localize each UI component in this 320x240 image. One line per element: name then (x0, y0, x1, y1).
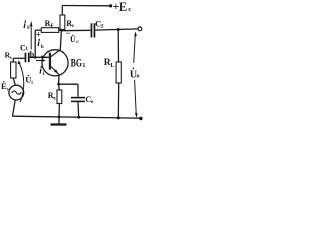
svg-text:+: + (36, 30, 41, 40)
svg-text:e: e (91, 99, 94, 105)
svg-text:o: o (137, 74, 140, 80)
svg-text:BG: BG (71, 57, 82, 69)
capacitor C1 (13, 53, 29, 63)
capacitor C2 (91, 23, 96, 37)
svg-text:i: i (31, 81, 33, 86)
label Ce (85, 94, 94, 105)
svg-text:b: b (41, 44, 44, 50)
resistor Rs (11, 58, 16, 85)
label Ui (25, 75, 33, 86)
node Ce rail junction (77, 116, 80, 119)
svg-text:L: L (110, 63, 114, 69)
node output terminal bottom (139, 117, 142, 120)
label Uo (130, 68, 140, 81)
svg-text:i: i (23, 21, 26, 31)
current arrow IF (30, 21, 33, 50)
ground (51, 117, 67, 125)
svg-text:c: c (76, 40, 79, 45)
node b junction dot (34, 56, 37, 59)
wire RF lead down to node b (34, 30, 36, 57)
label C1 (20, 43, 28, 52)
label Es (1, 81, 9, 92)
label BG1 (71, 57, 86, 69)
wire output from C2 to terminal (95, 29, 138, 30)
label Ii (39, 66, 45, 77)
node RL rail junction (117, 116, 120, 119)
polarity - at RF right (65, 28, 70, 38)
svg-text:i: i (39, 67, 42, 77)
node +Ec supply terminal dot (109, 4, 112, 7)
power label +Ec (113, 0, 132, 14)
svg-text:s: s (7, 87, 9, 92)
label Uc with minus (70, 35, 79, 46)
svg-text:2: 2 (101, 23, 104, 29)
wire top rail from Rc top to supply (62, 5, 110, 7)
voltage arrow Uo upper segment (134, 31, 137, 63)
resistor Re (57, 84, 62, 117)
current arrow Ii below base wire (36, 59, 46, 62)
node Re rail junction (58, 116, 61, 119)
wire base from C1 to transistor (30, 56, 49, 58)
label Re (48, 91, 57, 101)
node RL top junction (117, 28, 120, 31)
current arrow Ib on base wire (41, 55, 46, 58)
source Es (AC) (9, 85, 24, 100)
svg-text:1: 1 (82, 62, 85, 69)
svg-text:c: c (128, 6, 131, 13)
label C2 (95, 18, 104, 29)
wire output from collector to C2 (61, 29, 90, 31)
svg-text:1: 1 (25, 46, 28, 52)
node emitter junction (57, 83, 60, 86)
capacitor Ce (59, 84, 85, 117)
voltage arrow Ui (17, 60, 23, 102)
voltage arrow Uo lower segment (135, 80, 138, 118)
label IF (23, 20, 31, 31)
resistor RL (116, 30, 121, 118)
svg-text:e: e (53, 95, 56, 101)
node output terminal top (138, 27, 142, 31)
label RL (104, 58, 115, 69)
svg-text:U: U (70, 35, 76, 44)
label Rc (66, 19, 75, 29)
label RF (45, 19, 55, 29)
wire emitter lead (58, 76, 60, 85)
svg-text:c: c (72, 23, 75, 29)
wire source bottom to rail (13, 100, 16, 116)
label Rs (5, 51, 12, 61)
label node b (30, 50, 35, 59)
resistor Rc (60, 6, 65, 31)
svg-text:E: E (119, 0, 127, 14)
wire bottom rail (13, 116, 141, 118)
polarity + at RF left (36, 30, 41, 40)
wire collector lead (60, 31, 61, 50)
label Ib (37, 39, 43, 50)
transistor BG1 (42, 50, 68, 76)
svg-text:s: s (10, 56, 12, 61)
resistor RF (feedback) (35, 28, 61, 33)
